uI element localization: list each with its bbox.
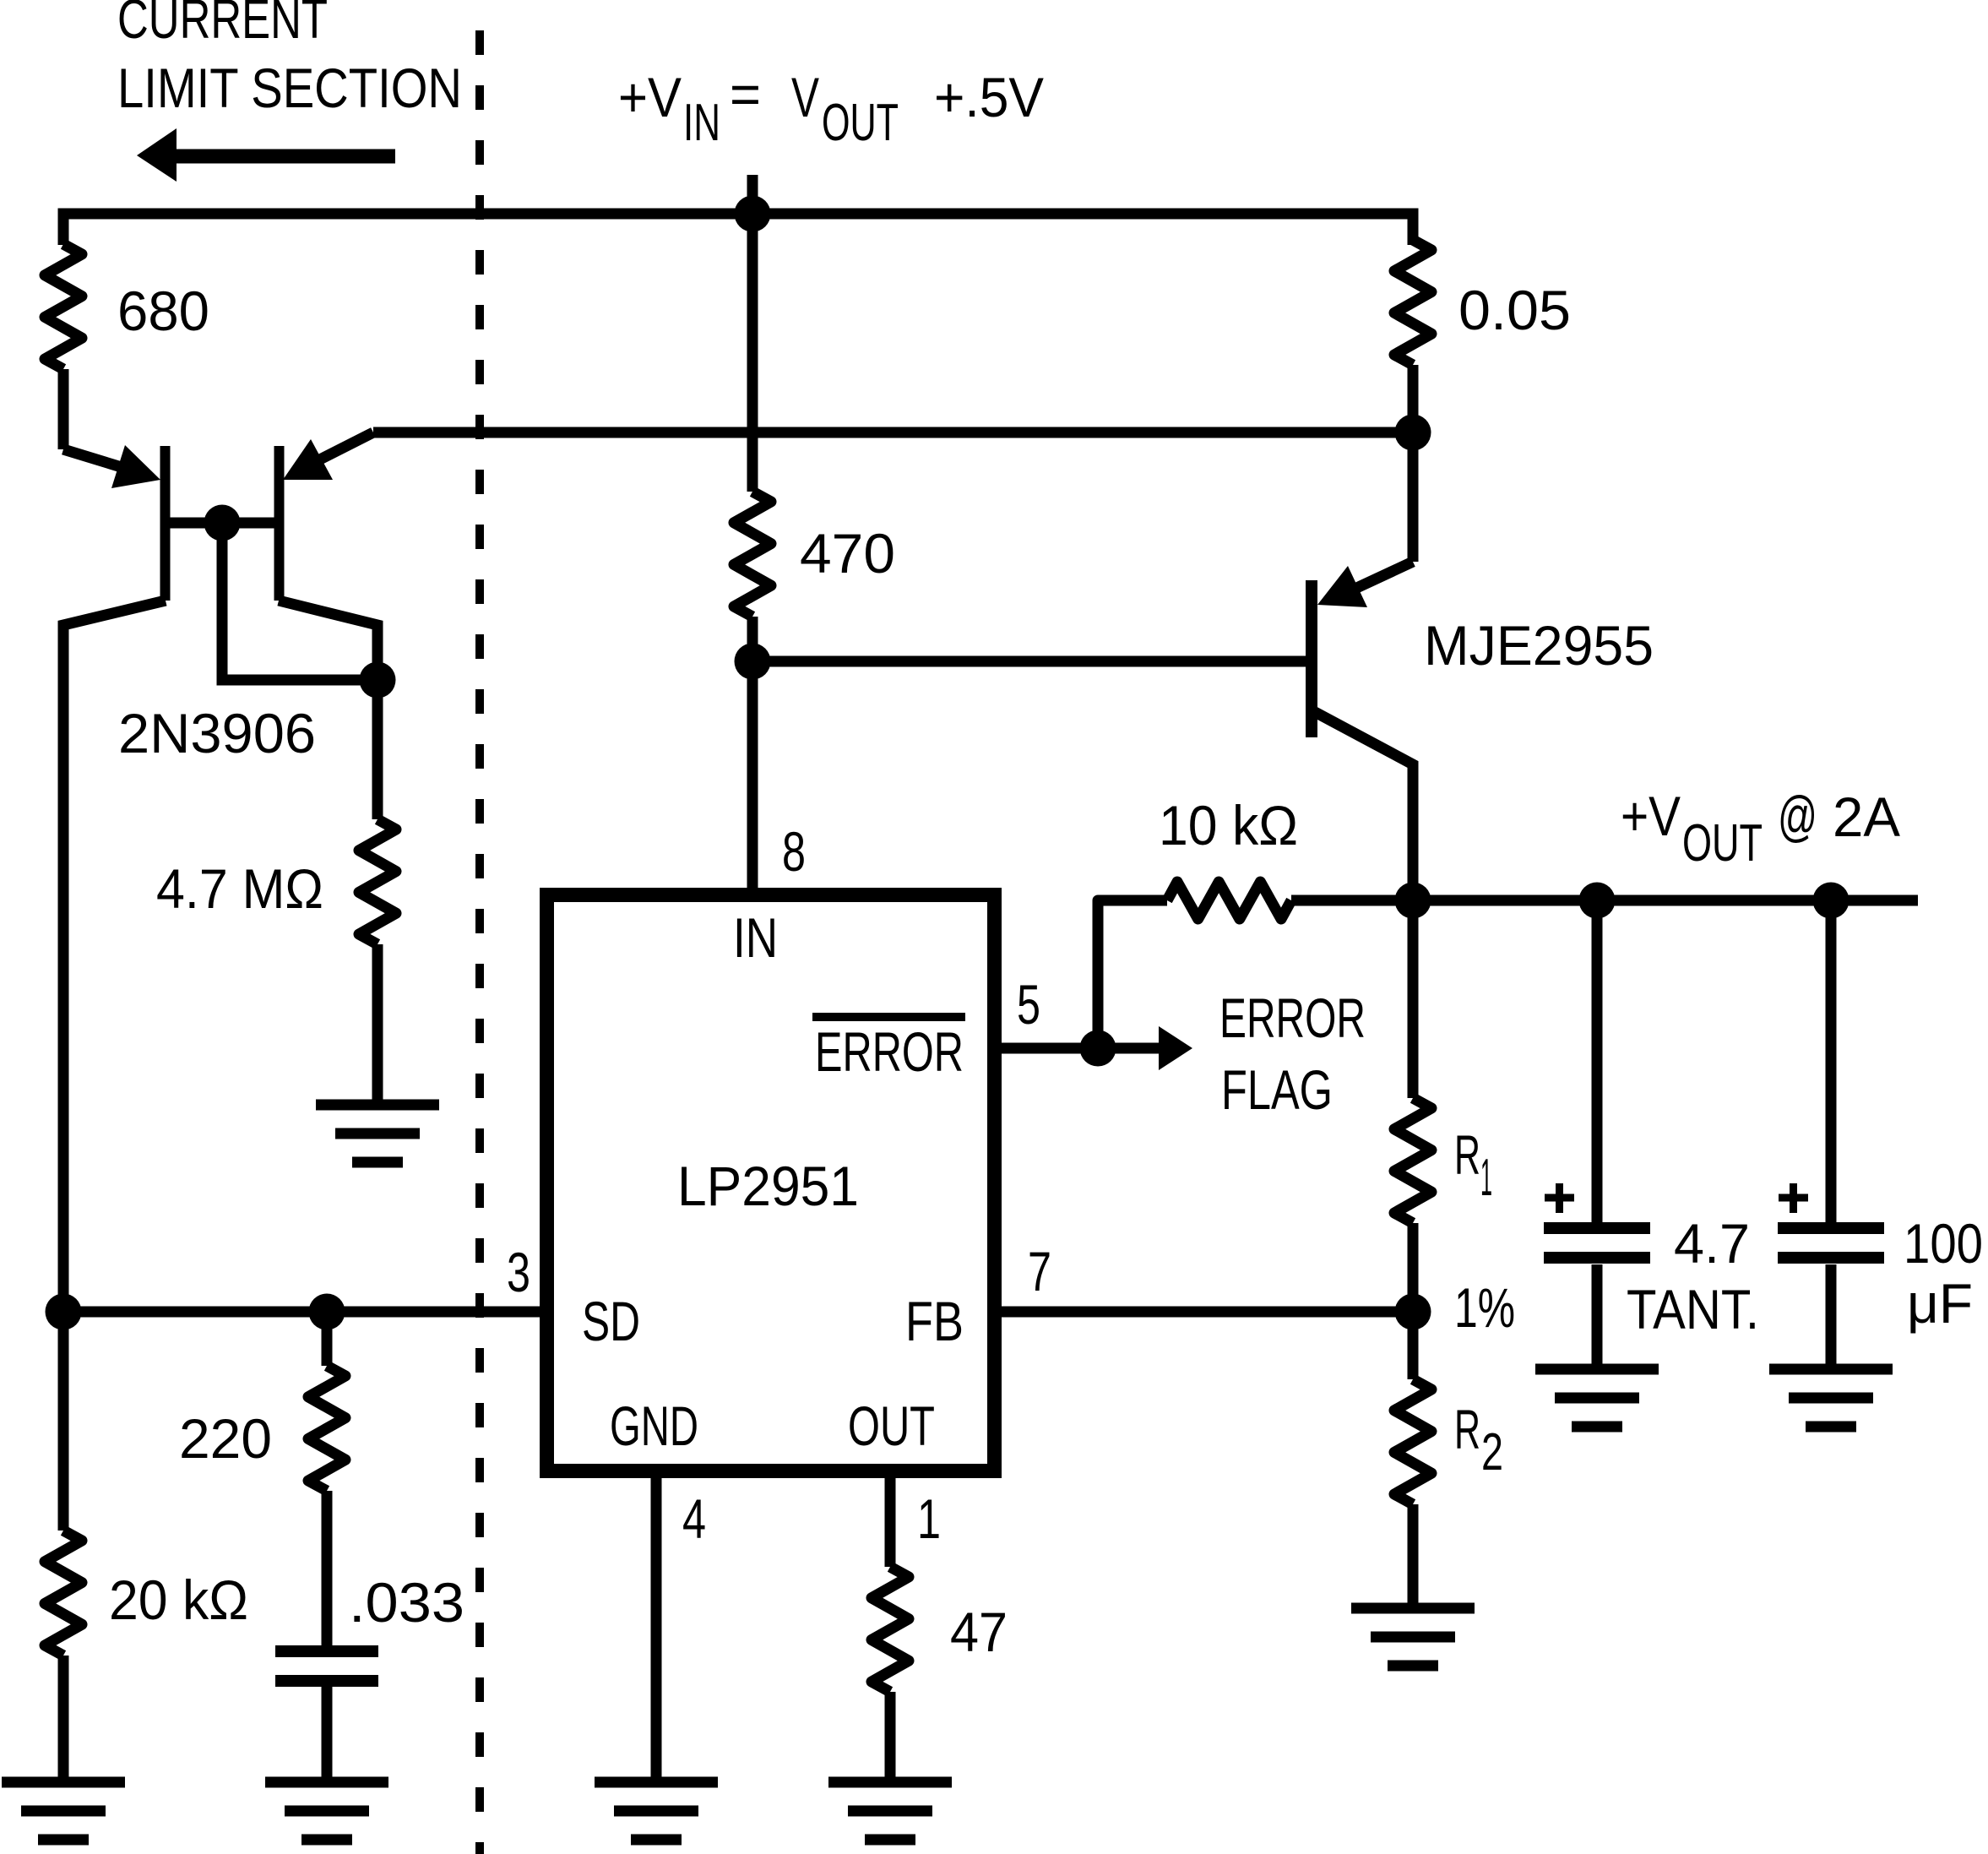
value label 20 kohm bbox=[109, 1569, 248, 1631]
svg-text:OUT: OUT bbox=[848, 1395, 935, 1457]
svg-text:0.05: 0.05 bbox=[1458, 279, 1571, 341]
capacitor C1 plates bbox=[1544, 1228, 1650, 1258]
stub above VIN junction bbox=[747, 175, 758, 214]
svg-text:47: 47 bbox=[950, 1601, 1008, 1663]
wire: SD pin 3 line bbox=[63, 1307, 547, 1318]
resistor 10 kohm bbox=[1098, 882, 1413, 1048]
resistor 4.7 Mohm bbox=[359, 819, 396, 1100]
capacitor C2 plates bbox=[1778, 1228, 1884, 1258]
ground (C2) bbox=[1769, 1369, 1893, 1427]
ground (GND pin) bbox=[595, 1782, 718, 1840]
svg-text:SD: SD bbox=[582, 1290, 640, 1352]
resistor 20 kohm bbox=[45, 1531, 82, 1777]
U1 pin numbers 8 5 3 7 4 1 bbox=[507, 820, 1051, 1550]
svg-text:ERROR: ERROR bbox=[1219, 987, 1366, 1049]
svg-text:1: 1 bbox=[917, 1487, 941, 1550]
svg-text:2N3906: 2N3906 bbox=[118, 702, 316, 764]
value label 680 bbox=[117, 280, 209, 342]
wire: +VOUT rail bbox=[1413, 895, 1918, 906]
wire: 0.05 bottom to Q1b emitter bbox=[373, 427, 1413, 438]
svg-text:V: V bbox=[791, 66, 819, 128]
transistor Q1b 2N3906 (right) emitter wire + arrow bbox=[274, 432, 374, 601]
value label 220 bbox=[179, 1407, 272, 1470]
wire: Q1a collector to left rail bbox=[63, 601, 166, 1531]
svg-text:IN: IN bbox=[733, 906, 778, 969]
node: VOUT / 4.7uF bbox=[1579, 883, 1616, 919]
svg-text:100: 100 bbox=[1904, 1212, 1983, 1275]
svg-text:OUT: OUT bbox=[1682, 814, 1763, 873]
ground (47) bbox=[828, 1782, 952, 1840]
node: VOUT / 100uF bbox=[1813, 883, 1849, 919]
value label 47 bbox=[950, 1601, 1008, 1663]
wire: base of MJE2955 bbox=[752, 656, 1306, 667]
svg-text:@: @ bbox=[1778, 785, 1817, 847]
svg-text:FB: FB bbox=[905, 1290, 964, 1352]
value label 100 uF bbox=[1904, 1212, 1983, 1335]
resistor 470 bbox=[734, 214, 771, 888]
label 1% bbox=[1454, 1276, 1515, 1339]
wire: Q1 base down and right to 4.7M node bbox=[222, 523, 378, 680]
transistor Q2 MJE2955 bbox=[1306, 432, 1413, 900]
wire: GND pin 4 bbox=[651, 1478, 662, 1777]
svg-text:4.7 MΩ: 4.7 MΩ bbox=[156, 857, 323, 920]
current-limit section divider (dashed) bbox=[475, 30, 484, 1854]
ERROR overline bbox=[812, 1013, 965, 1021]
svg-text:220: 220 bbox=[179, 1407, 272, 1470]
resistor 220 bbox=[308, 1312, 345, 1645]
svg-text:μF: μF bbox=[1907, 1272, 1973, 1335]
value label 4.7 TANT. bbox=[1627, 1212, 1759, 1340]
svg-text:5: 5 bbox=[1017, 973, 1040, 1036]
resistor 47 bbox=[872, 1478, 909, 1777]
transistor Q1a 2N3906 (left) emitter wire + arrow bbox=[63, 445, 171, 601]
wire: Q1b collector down bbox=[279, 601, 378, 819]
svg-text:ERROR: ERROR bbox=[815, 1020, 964, 1083]
node: 0.05 / MJE2955 emitter junction bbox=[1395, 415, 1431, 451]
svg-text:4: 4 bbox=[682, 1487, 706, 1550]
svg-text:IN: IN bbox=[683, 94, 720, 152]
svg-text:FLAG: FLAG bbox=[1221, 1058, 1333, 1121]
svg-text:TANT.: TANT. bbox=[1627, 1278, 1759, 1340]
net label +VOUT @ 2A bbox=[1621, 785, 1900, 873]
svg-text:1%: 1% bbox=[1454, 1276, 1515, 1339]
svg-text:+V: +V bbox=[618, 66, 682, 128]
ground (.033) bbox=[265, 1782, 388, 1840]
svg-text:4.7: 4.7 bbox=[1674, 1212, 1750, 1275]
node: Q1b collector / base-bias junction bbox=[360, 662, 396, 699]
resistor R2 bbox=[1394, 1312, 1431, 1603]
svg-text:R: R bbox=[1454, 1398, 1480, 1460]
wire: Q1 base tie bbox=[165, 518, 279, 529]
capacitor .033 plates bbox=[275, 1651, 378, 1681]
svg-text:+.5V: +.5V bbox=[934, 66, 1044, 128]
svg-text:MJE2955: MJE2955 bbox=[1424, 614, 1654, 677]
wire: pin5 ERROR out bbox=[1002, 1043, 1159, 1054]
value label 4.7 Mohm bbox=[156, 857, 323, 920]
svg-text:R: R bbox=[1454, 1123, 1480, 1186]
node: MJE collector / VOUT bbox=[1395, 883, 1431, 919]
label R1 bbox=[1454, 1123, 1492, 1207]
node: 470 / MJE base junction bbox=[735, 644, 771, 680]
resistor 680 bbox=[45, 214, 82, 449]
svg-text:3: 3 bbox=[507, 1241, 530, 1303]
svg-text:470: 470 bbox=[800, 522, 895, 584]
svg-text:CURRENT: CURRENT bbox=[117, 0, 328, 50]
node: SD / 20k junction bbox=[46, 1294, 82, 1330]
part label MJE2955 bbox=[1424, 614, 1654, 677]
ground (4.7M) bbox=[316, 1105, 439, 1162]
resistor R1 bbox=[1394, 900, 1431, 1312]
label ERROR FLAG bbox=[1219, 987, 1366, 1121]
svg-text:2: 2 bbox=[1481, 1423, 1503, 1482]
wire: +VIN top rail bbox=[63, 214, 1413, 245]
capacitor C2 100uF bbox=[1826, 900, 1837, 1222]
svg-text:1: 1 bbox=[1480, 1149, 1492, 1207]
resistor 0.05 bbox=[1394, 240, 1431, 432]
svg-text:=: = bbox=[730, 63, 761, 125]
section arrow (points left) bbox=[137, 128, 395, 182]
error flag arrow bbox=[1159, 1026, 1192, 1070]
ground (R2) bbox=[1351, 1608, 1475, 1666]
ground (C1) bbox=[1535, 1369, 1659, 1427]
svg-text:+V: +V bbox=[1621, 785, 1681, 847]
svg-text:LP2951: LP2951 bbox=[677, 1155, 859, 1217]
node: VIN junction on top rail bbox=[735, 196, 771, 232]
value label 10 kohm bbox=[1159, 794, 1298, 856]
C1 plus sign bbox=[1545, 1183, 1574, 1213]
svg-text:20 kΩ: 20 kΩ bbox=[109, 1569, 248, 1631]
svg-text:2A: 2A bbox=[1833, 786, 1900, 848]
label CURRENT LIMIT SECTION bbox=[117, 0, 462, 119]
svg-text:680: 680 bbox=[117, 280, 209, 342]
svg-text:10 kΩ: 10 kΩ bbox=[1159, 794, 1298, 856]
capacitor C1 4.7 TANT bbox=[1592, 900, 1603, 1222]
wire: FB pin 7 to divider bbox=[1002, 1307, 1413, 1318]
node: ERROR junction bbox=[1080, 1030, 1116, 1067]
op-amp/regulator U1 LP2951 box bbox=[547, 895, 995, 1471]
U1 pin name labels: IN ERROR LP2951 SD FB GND OUT bbox=[582, 906, 964, 1457]
C2 plus sign bbox=[1779, 1183, 1808, 1213]
svg-text:7: 7 bbox=[1028, 1240, 1051, 1302]
label +VIN = VOUT +.5V bbox=[618, 63, 1044, 152]
value label .033 bbox=[349, 1571, 464, 1634]
part label 2N3906 bbox=[118, 702, 316, 764]
svg-text:LIMIT SECTION: LIMIT SECTION bbox=[117, 57, 462, 119]
node: Q1 bases junction bbox=[204, 505, 241, 541]
ground (20k) bbox=[2, 1782, 125, 1840]
value label 470 bbox=[800, 522, 895, 584]
value label 0.05 bbox=[1458, 279, 1571, 341]
label R2 bbox=[1454, 1398, 1503, 1482]
svg-text:.033: .033 bbox=[349, 1571, 464, 1634]
svg-text:8: 8 bbox=[782, 820, 806, 883]
svg-text:OUT: OUT bbox=[822, 94, 899, 152]
node: feedback divider junction bbox=[1395, 1294, 1431, 1330]
node: SD / 220 junction bbox=[309, 1294, 345, 1330]
svg-text:GND: GND bbox=[610, 1395, 698, 1457]
